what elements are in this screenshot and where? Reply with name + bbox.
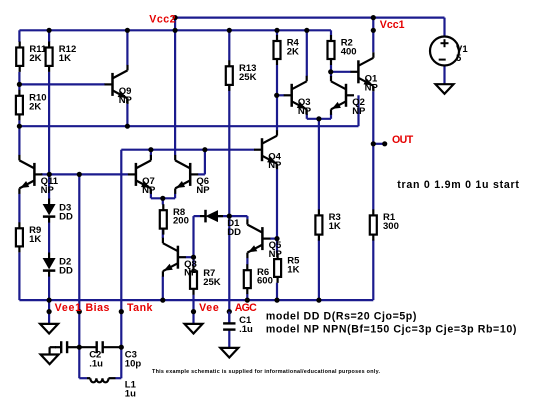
- resistor R2: [328, 35, 357, 65]
- svg-text:NP: NP: [352, 106, 366, 117]
- wire: [126, 104, 128, 127]
- svg-text:300: 300: [383, 221, 399, 232]
- wire: [151, 197, 175, 199]
- junction: [371, 15, 376, 20]
- resistor R7: [190, 265, 221, 294]
- junction: [371, 141, 376, 146]
- net label Vcc1: [380, 19, 405, 31]
- junction: [160, 298, 165, 303]
- net label Bias: [86, 302, 110, 314]
- svg-text:NP: NP: [184, 268, 198, 279]
- wire: [192, 295, 194, 324]
- resistor R10: [16, 90, 47, 121]
- wire: [121, 149, 254, 151]
- wire: [48, 223, 50, 253]
- wire: [277, 94, 284, 96]
- svg-text:model NP NPN(Bf=150 Cjc=3p Cje: model NP NPN(Bf=150 Cjc=3p Cje=3p Rb=10): [266, 324, 517, 336]
- wire: [306, 114, 308, 119]
- svg-text:10p: 10p: [125, 359, 142, 370]
- capacitor C1: [223, 312, 253, 335]
- svg-text:25K: 25K: [239, 72, 257, 83]
- junction: [202, 147, 207, 152]
- wire: [194, 215, 201, 217]
- svg-text:2K: 2K: [29, 53, 41, 64]
- junction: [47, 172, 52, 177]
- svg-text:Vee: Vee: [199, 302, 219, 314]
- capacitor C2: [55, 341, 103, 369]
- node Bias anchor: [77, 309, 82, 314]
- wire: [18, 30, 20, 42]
- wire: [162, 229, 164, 238]
- wire: [19, 125, 358, 127]
- transistor Q8: [163, 238, 198, 279]
- net label Vcc2: [149, 14, 176, 26]
- wire: [126, 30, 128, 65]
- wire: [174, 18, 176, 156]
- svg-text:2K: 2K: [29, 101, 41, 112]
- junction: [77, 172, 82, 177]
- svg-text:Vcc2: Vcc2: [149, 14, 176, 26]
- resistor R4: [274, 35, 300, 65]
- wire: [48, 30, 50, 42]
- node Vee1 anchor: [47, 309, 52, 314]
- resistor R13: [226, 60, 257, 91]
- wire: [18, 84, 20, 90]
- wire: [19, 299, 373, 301]
- wire: [116, 377, 122, 379]
- wire: [372, 144, 374, 210]
- wire: [276, 283, 278, 300]
- transistor Q6: [175, 155, 210, 196]
- net label Vee1: [55, 302, 82, 314]
- wire: [306, 30, 308, 76]
- junction: [274, 236, 279, 241]
- svg-text:1K: 1K: [29, 234, 41, 245]
- diode D1: [200, 210, 241, 238]
- wire: [276, 169, 278, 239]
- svg-text:1K: 1K: [329, 221, 341, 232]
- wire: [372, 91, 374, 144]
- junction: [316, 116, 321, 121]
- svg-text:DD: DD: [59, 265, 73, 276]
- wire: [373, 143, 384, 145]
- net label Tank: [127, 302, 153, 314]
- svg-text:model DD D(Rs=20 Cjo=5p): model DD D(Rs=20 Cjo=5p): [266, 311, 417, 323]
- wire: [228, 85, 230, 216]
- junction: [148, 147, 153, 152]
- wire: [18, 252, 20, 300]
- wire: [150, 150, 152, 156]
- transistor Q1: [350, 52, 378, 93]
- wire: [192, 216, 194, 257]
- diode D3: [43, 199, 73, 223]
- transistor Q9: [105, 65, 133, 106]
- wire: [18, 194, 20, 223]
- junction: [125, 28, 130, 33]
- wire: [357, 95, 359, 126]
- wire: [318, 240, 320, 301]
- wire: [372, 240, 374, 301]
- net label Vee: [199, 302, 219, 314]
- svg-text:200: 200: [173, 216, 189, 227]
- svg-text:NP: NP: [196, 185, 210, 196]
- junction: [17, 82, 22, 87]
- wire: [41, 173, 128, 175]
- transistor Q2: [331, 76, 366, 117]
- svg-text:NP: NP: [41, 185, 55, 196]
- junction: [227, 214, 232, 219]
- junction: [274, 93, 279, 98]
- wire: [120, 150, 122, 379]
- ground (C2): [41, 347, 59, 364]
- diode D2: [43, 253, 73, 277]
- wire: [186, 256, 194, 258]
- junction: [119, 345, 124, 350]
- svg-text:NP: NP: [119, 95, 133, 106]
- wire: [18, 126, 20, 155]
- junction: [47, 28, 52, 33]
- wire: [48, 300, 50, 324]
- resistor R9: [16, 222, 41, 252]
- directive model DD: [266, 311, 417, 323]
- junction: [227, 28, 232, 33]
- transistor Q4: [254, 130, 282, 171]
- node AGC anchor: [227, 309, 232, 314]
- junction: [17, 124, 22, 129]
- svg-text:2K: 2K: [287, 47, 299, 58]
- resistor R5: [274, 253, 300, 283]
- wire: [246, 294, 248, 300]
- fine print: [152, 369, 380, 375]
- wire: [48, 277, 50, 301]
- svg-text:NP: NP: [268, 160, 282, 171]
- wire: [307, 118, 331, 120]
- wire: [331, 71, 351, 73]
- svg-text:This example schematic is supp: This example schematic is supplied for i…: [152, 369, 380, 375]
- node Vcc1 anchor: [371, 28, 376, 33]
- inductor L1: [87, 378, 137, 399]
- wire: [48, 72, 50, 174]
- resistor R1: [370, 209, 399, 240]
- wire: [19, 83, 105, 85]
- svg-text:Vcc1: Vcc1: [380, 19, 405, 31]
- ground (Vee): [185, 324, 203, 334]
- wire: [78, 174, 80, 378]
- svg-text:OUT: OUT: [392, 134, 414, 146]
- wire: [175, 17, 444, 19]
- wire: [443, 18, 445, 37]
- svg-text:400: 400: [341, 47, 357, 58]
- wire: [318, 119, 320, 210]
- resistor R11: [16, 42, 47, 72]
- resistor R12: [46, 42, 77, 72]
- transistor Q5: [247, 219, 282, 260]
- svg-text:25K: 25K: [203, 277, 221, 288]
- resistor R3: [315, 209, 340, 240]
- svg-text:1K: 1K: [59, 53, 71, 64]
- net label OUT: [392, 134, 414, 146]
- svg-text:tran 0 1.9m 0 1u start: tran 0 1.9m 0 1u start: [397, 179, 519, 191]
- wire: [246, 216, 248, 219]
- svg-text:.1u: .1u: [89, 359, 103, 370]
- wire: [162, 276, 164, 300]
- wire: [218, 215, 247, 217]
- junction: [328, 69, 333, 74]
- junction: [47, 298, 52, 303]
- wire: [276, 239, 278, 254]
- junction: [160, 196, 165, 201]
- wire: [192, 257, 194, 265]
- svg-text:NP: NP: [269, 249, 283, 260]
- wire: [330, 30, 332, 35]
- svg-text:AGC: AGC: [235, 302, 257, 314]
- ground (V1): [436, 84, 454, 94]
- svg-text:5: 5: [456, 53, 462, 64]
- junction: [316, 298, 321, 303]
- wire: [48, 174, 50, 199]
- transistor Q11: [19, 155, 58, 196]
- node OUT anchor: [382, 141, 387, 146]
- wire: [276, 65, 278, 131]
- transistor Q7: [128, 155, 156, 196]
- svg-text:Bias: Bias: [86, 302, 110, 314]
- wire: [228, 30, 230, 60]
- wire: [372, 18, 374, 53]
- wire: [276, 30, 278, 35]
- capacitor C3: [79, 341, 141, 369]
- wire: [246, 258, 248, 265]
- ground (Vee1): [40, 324, 58, 334]
- wire: [162, 198, 164, 204]
- ground (C1): [220, 348, 238, 358]
- wire: [18, 120, 20, 126]
- wire: [330, 114, 332, 119]
- wire: [443, 65, 445, 84]
- wire: [79, 377, 87, 379]
- svg-text:1u: 1u: [125, 388, 136, 399]
- net label AGC: [235, 302, 257, 314]
- node Vcc2 anchor: [173, 15, 178, 20]
- wire: [198, 173, 205, 175]
- directive model NP: [266, 324, 517, 336]
- junction: [77, 345, 82, 350]
- svg-text:NP: NP: [142, 185, 156, 196]
- wire: [19, 29, 331, 31]
- transistor Q3: [284, 76, 312, 117]
- svg-text:600: 600: [257, 276, 273, 287]
- resistor R6: [244, 264, 273, 294]
- junction: [191, 255, 196, 260]
- voltage source V1: [430, 37, 468, 66]
- svg-text:Vee1: Vee1: [55, 302, 82, 314]
- svg-text:DD: DD: [59, 211, 73, 222]
- svg-text:.1u: .1u: [239, 324, 253, 335]
- wire: [330, 65, 332, 77]
- wire: [228, 330, 230, 348]
- wire: [204, 150, 206, 175]
- svg-text:NP: NP: [298, 106, 312, 117]
- svg-text:NP: NP: [365, 82, 379, 93]
- wire: [270, 238, 277, 240]
- junction: [274, 298, 279, 303]
- wire: [150, 193, 152, 198]
- directive tran: [397, 179, 519, 191]
- wire: [18, 72, 20, 85]
- junction: [125, 124, 130, 129]
- node Vee anchor: [191, 309, 196, 314]
- junction: [274, 28, 279, 33]
- node Tank anchor: [119, 309, 124, 314]
- svg-text:DD: DD: [227, 227, 241, 238]
- resistor R8: [160, 204, 189, 234]
- junction: [173, 28, 178, 33]
- junction: [304, 28, 309, 33]
- wire: [174, 194, 176, 199]
- svg-text:Tank: Tank: [127, 302, 153, 314]
- svg-text:1K: 1K: [287, 265, 299, 276]
- junction: [245, 298, 250, 303]
- wire: [228, 216, 230, 323]
